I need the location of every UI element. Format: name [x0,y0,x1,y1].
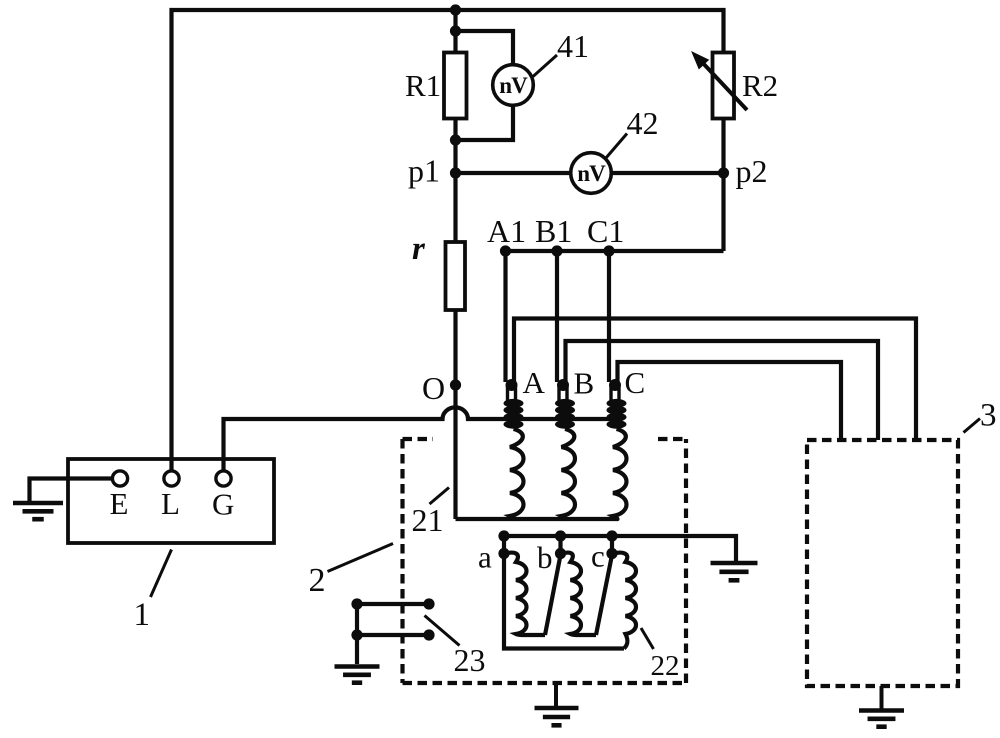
ground bars secondary star [711,563,758,580]
node: secondary bus b [555,530,566,541]
svg-text:L: L [161,486,180,521]
wire: p1 to voltmeter 42 left [456,171,572,175]
ground bars link 23 [335,667,380,683]
node O [450,379,461,390]
node C1 [603,245,614,256]
svg-text:A1: A1 [487,213,526,249]
terminal L [164,471,179,486]
node: secondary bus c [606,530,617,541]
svg-text:E: E [110,486,129,521]
dashed enclosure 2: bottom edge [403,681,687,685]
ground bars below box 3 [859,711,904,727]
primary winding blob stack phase B [555,399,575,408]
voltmeter 41 (nV) [493,65,534,106]
svg-text:21: 21 [412,502,444,538]
wire: tap from node C to box 3 (inner) [618,362,842,440]
node: meter 41 bottom branch [450,134,461,145]
wire: A1 column down to node A [503,251,507,382]
svg-text:R1: R1 [405,68,441,103]
svg-text:R2: R2 [742,68,778,103]
ground: below box 2 [554,683,558,706]
wire: tap from node B to box 3 (middle) [566,341,879,440]
wire: voltmeter 41 bottom branch [456,105,514,141]
secondary winding coil c (22) [614,553,636,649]
svg-text:C: C [625,365,646,400]
node p2 [718,167,729,178]
pointer to 21 [430,488,450,505]
wire: top bus with left drop to L and right drop to R2 [172,10,724,470]
wire: voltmeter 42 right to p2 [611,171,724,175]
voltmeter 42 (nV) [571,153,612,194]
svg-text:c: c [591,539,605,574]
wire: from terminal G with hop over O wire to winding tops [224,407,623,470]
wire: secondary drop c [610,536,614,554]
ground bars at E terminal [13,503,63,519]
wire: terminal E to ground [30,479,113,502]
primary winding coil C (21) [613,429,627,519]
arrow of variable resistor R2 [700,60,747,110]
dashed enclosure 2: top edge segments [403,437,687,441]
wire: link 23 lower [357,633,429,637]
svg-text:nV: nV [577,161,606,186]
wire: R2 bottom lead through p2 down to C1 line [721,118,725,251]
pointer to 3 [964,419,981,433]
svg-text:B1: B1 [535,213,572,249]
ground: left of box 1 (E terminal) [28,478,32,501]
svg-text:p2: p2 [736,153,768,189]
wire: B1 column down to node B [555,251,559,382]
svg-text:2: 2 [309,562,326,599]
node: link 23 upper-right [423,598,434,609]
terminal G [216,471,231,486]
svg-text:42: 42 [627,105,659,141]
wire: link 23 upper [357,602,429,606]
wire: secondary top bus to ground at right [504,536,736,561]
wire: secondary drop b [558,536,562,554]
node: link 23 lower-right [423,629,434,640]
node: meter 41 top branch [450,25,461,36]
pointer to 2 [328,544,394,572]
svg-text:O: O [422,370,445,406]
wire: tap from node A to box 3 (outer) [514,319,916,441]
wire: resistor r down to node O [453,310,457,385]
node B [557,379,569,391]
svg-text:1: 1 [134,597,151,633]
wire: R1 bottom lead down to p1 [453,118,457,173]
resistor r [446,242,466,310]
wire: node stub into winding top at x=565.5 [559,386,567,403]
svg-text:41: 41 [557,28,589,64]
svg-text:r: r [412,231,426,267]
wire: secondary left side and bottom return [504,554,624,649]
secondary winding coil b (22) [563,553,597,635]
ground bars below box 2 [535,708,579,725]
dashed enclosure 2: right edge [684,439,688,683]
wire: node stub into winding top at x=514 [508,386,516,403]
node: top bus junction [450,4,461,15]
ground: below box 3 [880,686,884,709]
wire: R1 top lead from top bus [453,10,457,53]
svg-text:23: 23 [454,642,486,678]
dashed box 3 [807,440,958,686]
svg-text:G: G [212,487,234,522]
svg-text:b: b [537,540,553,575]
svg-text:3: 3 [980,398,997,434]
node B1 [551,245,562,256]
svg-text:p1: p1 [408,153,440,189]
node C [609,379,621,391]
primary winding blob stack phase C [607,399,627,408]
wire: slant link winding b to node c [596,555,612,635]
node: secondary bus a [498,530,509,541]
wire: secondary drop a [502,536,506,554]
node a [498,548,509,559]
secondary winding coil a (22) [506,553,545,635]
dashed enclosure 2: left edge [400,439,404,683]
pointer to 23 [425,616,460,646]
resistor R1 [444,53,467,119]
svg-text:C1: C1 [587,213,624,249]
node A [506,379,518,391]
wire: node O down to primary bottom bus [453,385,457,519]
node b [555,548,566,559]
pointer to 22 [641,628,654,649]
pointer to 42 [606,134,628,159]
node p1 [450,167,461,178]
wire: link 23 left down to ground [355,604,359,664]
svg-text:a: a [478,540,492,575]
instrument box 1 [68,459,274,543]
wire: primary winding bottom bus [456,517,619,521]
svg-text:22: 22 [651,650,680,682]
svg-text:nV: nV [499,73,528,98]
pointer to 41 [533,55,557,77]
primary winding coil B (21) [562,429,576,519]
wire: branch to voltmeter 41 top [456,31,514,66]
svg-text:A: A [523,365,546,400]
node A1 [500,245,511,256]
wire: horizontal line A1-B1-C1 to p2 column [506,249,724,253]
primary winding blob stack phase A [504,399,524,408]
wire: node stub into winding top at x=617.5 [611,386,619,403]
wire: p1 down to resistor r [453,173,457,242]
pointer to 1 [151,550,172,598]
node: link 23 upper-left [351,598,362,609]
node: link 23 lower-left [351,629,362,640]
wire: C1 column down to node C [607,251,611,382]
primary winding coil A (21) [510,429,524,519]
svg-text:B: B [574,366,595,401]
node c [606,548,617,559]
wire: slant link winding a to node b [545,555,561,635]
variable resistor R2 [713,53,735,119]
terminal E [112,471,127,486]
